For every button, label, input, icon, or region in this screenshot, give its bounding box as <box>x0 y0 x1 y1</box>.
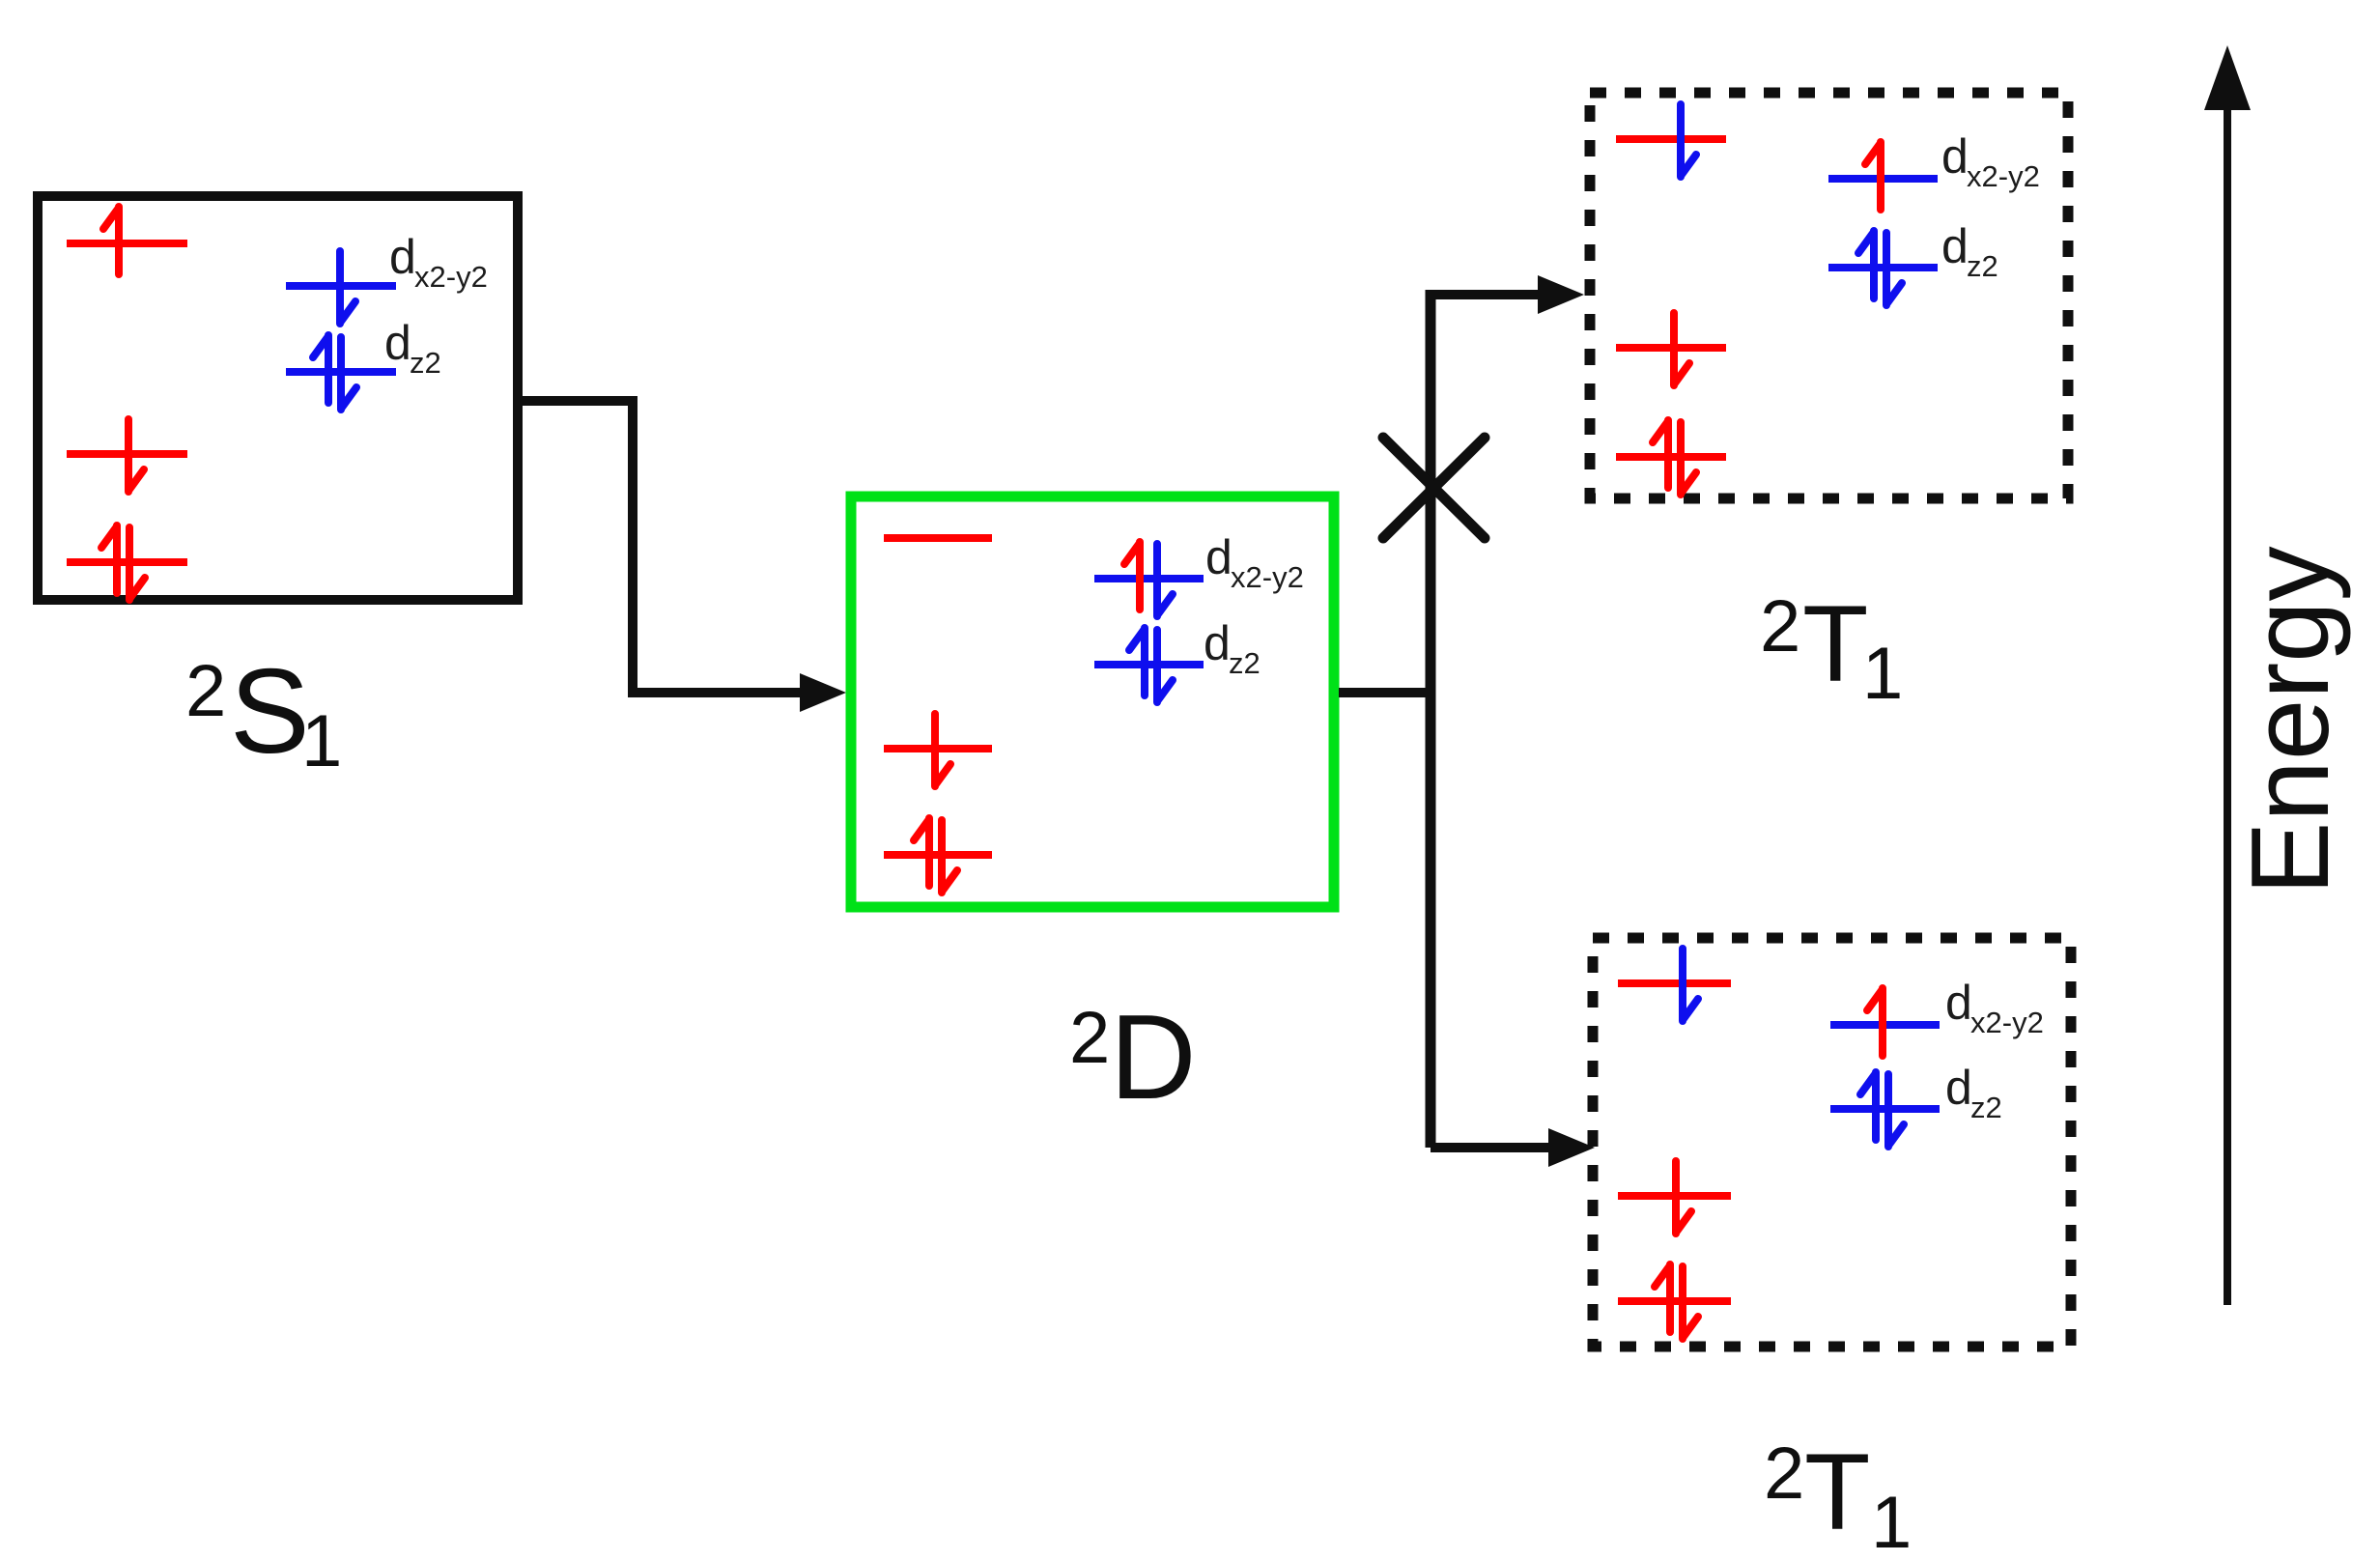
svg-text:T: T <box>1802 583 1868 704</box>
level dx2-y2 red up-spin (upper 2T1) <box>1828 142 1938 210</box>
svg-text:1: 1 <box>1862 633 1903 715</box>
svg-text:D: D <box>1110 991 1197 1124</box>
arrowhead into upper 2T1 <box>1538 275 1584 314</box>
label dz2 (lower 2T1) <box>1945 1061 2002 1124</box>
svg-text:S: S <box>230 645 310 779</box>
svg-text:d: d <box>1941 219 1969 273</box>
label dz2 (2S1) <box>384 316 441 380</box>
svg-text:d: d <box>1945 976 1972 1030</box>
arrowhead into 2D <box>800 673 846 712</box>
label lower 2T1 <box>1764 1432 1912 1561</box>
svg-text:1: 1 <box>301 700 342 782</box>
label dx2-y2 (lower 2T1) <box>1945 976 2044 1039</box>
level dxz down-spin (2D) <box>884 714 992 786</box>
svg-text:2: 2 <box>1764 1433 1804 1515</box>
level dxy empty (2D) <box>884 534 992 542</box>
energy axis line <box>2224 97 2231 1305</box>
label dz2 (2D) <box>1204 616 1261 680</box>
svg-text:d: d <box>1205 530 1232 584</box>
level dx2-y2 paired spins (2D) <box>1094 542 1204 616</box>
level dz2 paired spins (lower 2T1) <box>1830 1072 1940 1147</box>
svg-text:1: 1 <box>1871 1482 1912 1561</box>
level dz2 paired spins (2D) <box>1094 628 1204 702</box>
svg-text:2: 2 <box>185 650 226 732</box>
state box lower 2T1 (dashed) <box>1593 938 2071 1347</box>
level dxy up-spin (2S1) <box>67 207 187 274</box>
level dxz down-spin (upper 2T1) <box>1616 313 1726 385</box>
label dx2-y2 (2D) <box>1205 530 1304 594</box>
wire 2S1 to 2D <box>518 401 829 693</box>
svg-text:d: d <box>1941 129 1969 184</box>
label dx2-y2 (2S1) <box>389 230 488 294</box>
wire branch to lower 2T1 <box>1431 1143 1548 1152</box>
svg-text:T: T <box>1804 1432 1870 1552</box>
state box 2S1 <box>38 196 518 600</box>
svg-text:z2: z2 <box>1967 249 1998 283</box>
svg-text:2: 2 <box>1069 997 1110 1079</box>
level dx2-y2 down-spin (2S1) <box>286 251 396 324</box>
wire branch to upper 2T1 <box>1431 290 1538 299</box>
level dxz down-spin (lower 2T1) <box>1618 1161 1731 1234</box>
svg-text:2: 2 <box>1760 585 1800 667</box>
label 2S1 <box>185 645 342 782</box>
energy axis arrowhead <box>2204 45 2251 110</box>
level dyz paired spins (2D) <box>884 818 992 893</box>
svg-text:x2-y2: x2-y2 <box>414 260 488 294</box>
svg-text:d: d <box>389 230 416 284</box>
svg-text:x2-y2: x2-y2 <box>1231 560 1304 594</box>
label dx2-y2 (upper 2T1) <box>1941 129 2040 193</box>
level dz2 paired spins (2S1) <box>286 335 396 410</box>
state box upper 2T1 (dashed) <box>1590 93 2068 498</box>
svg-text:x2-y2: x2-y2 <box>1970 1006 2044 1039</box>
level dyz paired spins (lower 2T1) <box>1618 1264 1731 1339</box>
level dyz paired spins (2S1) <box>67 525 187 600</box>
arrowhead into lower 2T1 <box>1548 1128 1595 1167</box>
level dz2 paired spins (upper 2T1) <box>1828 231 1938 305</box>
level dyz paired spins (upper 2T1) <box>1616 420 1726 495</box>
branch trunk vertical <box>1426 290 1436 1148</box>
svg-text:d: d <box>1945 1061 1972 1115</box>
label dz2 (upper 2T1) <box>1941 219 1998 283</box>
svg-text:d: d <box>1204 616 1231 670</box>
forbidden transition X mark <box>1383 438 1485 538</box>
svg-text:x2-y2: x2-y2 <box>1967 159 2040 193</box>
label 2D <box>1069 991 1197 1124</box>
svg-text:z2: z2 <box>410 346 441 380</box>
label upper 2T1 <box>1760 583 1903 715</box>
svg-text:d: d <box>384 316 411 370</box>
svg-text:z2: z2 <box>1970 1091 2002 1124</box>
svg-text:z2: z2 <box>1229 646 1261 680</box>
svg-text:Energy: Energy <box>2229 546 2352 894</box>
state box 2D (green) <box>851 497 1334 907</box>
level dxy blue down-spin (lower 2T1) <box>1618 949 1731 1021</box>
level dx2-y2 red up-spin (lower 2T1) <box>1830 988 1940 1056</box>
level dxz down-spin (2S1) <box>67 419 187 492</box>
wire 2D to branch trunk <box>1339 688 1431 697</box>
level dxy blue down-spin (upper 2T1) <box>1616 104 1726 177</box>
